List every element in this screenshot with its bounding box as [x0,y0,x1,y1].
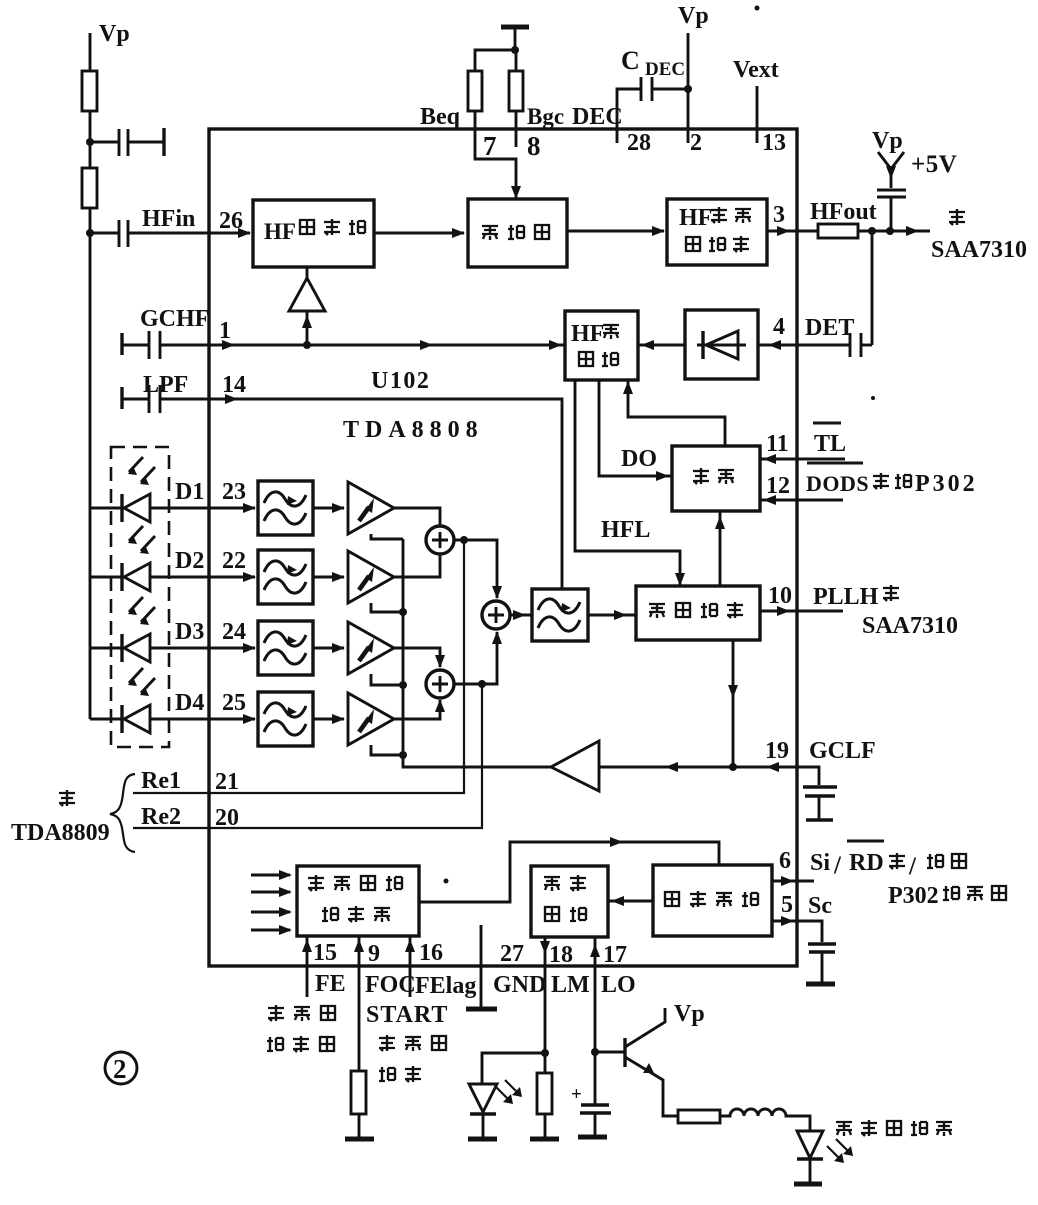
svg-text:6: 6 [779,848,791,874]
svg-text:14: 14 [222,372,246,398]
svg-text:1: 1 [219,318,231,344]
svg-text:24: 24 [222,619,246,645]
capacitor GCLF (outside) [797,767,819,785]
transistor Q1 [595,1008,678,1116]
brace to TDA8809 [110,774,135,852]
svg-text:7: 7 [483,131,497,161]
svg-text:FElag: FElag [415,973,476,999]
wire Re1 (pin 21) [133,540,464,793]
wire focus to start circuit [419,842,719,902]
node LM-LED [541,1049,549,1057]
pin 9 wire FOC [358,936,361,1071]
capacitor Sc [808,944,836,952]
wire gain bus vertical [403,539,551,767]
svg-text:FE: FE [315,971,346,997]
node LO-base [591,1048,599,1056]
wire start to laser supply [608,900,653,903]
pin 27 wire GND [480,925,483,1008]
wire A2 to summer S1 [394,555,440,577]
laser diode [797,1131,853,1183]
svg-text:C: C [621,46,640,75]
block focus normalizer (聚焦标准化电路) [297,866,419,936]
resistor Beq [468,71,482,111]
wire pin 4 DET [758,344,850,347]
svg-text:TDA8808: TDA8808 [343,417,484,443]
svg-text:Sc: Sc [808,893,832,919]
capacitor C2 (HFin coupling) [90,232,119,235]
label 来自P302 [873,473,889,489]
photodiode D3 [90,597,256,662]
svg-text:SAA7310: SAA7310 [931,237,1027,263]
summer S3 [482,601,510,629]
svg-text:5: 5 [781,892,793,918]
wire HFamp to equalizer [374,232,464,235]
resistor FOC [351,1071,366,1114]
svg-text:HFout: HFout [810,199,877,225]
svg-text:DET: DET [805,315,854,341]
filter F3 [258,621,345,675]
ground LED [468,1137,497,1142]
pin 16 wire FElag [409,936,412,997]
svg-text:+: + [571,1084,582,1105]
wire rail long (photodiode common) [89,208,92,719]
svg-text:25: 25 [222,690,246,716]
amplifier A1 [348,482,394,534]
pin 11 wire TL [760,458,845,461]
svg-text:17: 17 [603,942,627,968]
label 到 TDA8809 [59,790,75,806]
svg-text:18: 18 [549,942,573,968]
svg-text:Bgc: Bgc [527,104,564,129]
ground pin 27 [466,1007,497,1012]
node rail-HFin [86,229,94,237]
wire A1 to summer S1 [394,508,440,525]
buffer triangle GCLF [551,741,599,791]
label 增益控制 text [649,604,665,618]
photodiode D4 [90,668,256,733]
node GCLF [729,763,737,771]
svg-text:28: 28 [627,130,651,156]
wire rail mid [89,111,92,168]
svg-text:U102: U102 [371,368,430,394]
label 到聚焦 驱动器 [268,1005,284,1021]
svg-text:22: 22 [222,548,246,574]
wire GCHF pin 1 [120,333,123,355]
svg-text:LM: LM [551,972,590,998]
svg-text:PLLH: PLLH [813,584,879,610]
photodiode D2 [90,526,256,591]
svg-text:19: 19 [765,738,789,764]
resistor Bgc [515,50,518,71]
wire Re2 (pin 20) [133,684,482,828]
wire logic top to HF detector [628,380,725,446]
svg-text:DEC: DEC [572,104,623,130]
pin 18 wire LM [544,937,547,1073]
svg-text:Re2: Re2 [141,804,181,830]
svg-text:21: 21 [215,769,239,795]
svg-text:D4: D4 [175,690,204,716]
svg-text:27: 27 [500,941,524,967]
node bus-A2 [399,608,407,616]
capacitor DET [850,333,861,357]
svg-text:LPF: LPF [143,372,188,398]
pin 7 wire into equalizer [475,111,516,198]
svg-text:2: 2 [113,1054,127,1084]
gain control bus (amp hooks) [371,534,403,539]
svg-text:GCLF: GCLF [809,738,876,764]
svg-text:+5V: +5V [911,151,957,178]
svg-text:11: 11 [766,431,789,457]
resistor LM [537,1073,552,1114]
wire A3 to summer S2 [394,648,440,667]
capacitor C +5V [877,190,906,197]
svg-text:START: START [366,1002,448,1028]
pin 6 wire Si/RD [772,880,814,883]
label 激光二极管 [836,1122,852,1136]
inductor laser [720,1109,810,1131]
svg-text:Vext: Vext [733,57,779,83]
node bus-A3 [399,681,407,689]
svg-text:DODS: DODS [806,471,869,496]
svg-text:HFin: HFin [142,206,195,232]
LED monitor diode [482,1053,545,1084]
amplifier A3 [348,622,394,674]
wire equalizer to HF out amp [567,230,664,233]
svg-text:HF: HF [679,205,712,231]
svg-text:D1: D1 [175,479,204,505]
svg-text:16: 16 [419,940,443,966]
label 激光供给 text [544,877,560,891]
svg-text:13: 13 [762,130,786,156]
ground FOC [345,1137,374,1142]
scan speck [871,396,875,400]
wire gain control to GCLF [732,640,735,767]
block logic (逻辑) [672,446,760,511]
summer S1 [426,526,454,554]
node GCHF-triangle [303,341,311,349]
scan speck [444,879,449,884]
op-amp feedback triangle (below HF amp) [289,278,325,311]
wire S3 to main filter [510,614,532,617]
main filter block [532,589,588,641]
svg-text:HF: HF [264,219,296,244]
svg-text:D2: D2 [175,548,204,574]
wire S1 out [454,540,497,598]
svg-text:P302: P302 [888,883,939,909]
svg-text:9: 9 [368,941,380,967]
wire Vp pin 2 [687,33,690,143]
block HF output amplifier (HF输出放大器) [667,199,767,265]
svg-text:23: 23 [222,479,246,505]
node S1-Re1 [460,536,468,544]
resistor HFout [818,224,858,238]
label 开始电路 text [665,892,679,906]
svg-text:20: 20 [215,805,239,831]
wire HFin into pin 26 [128,232,250,235]
svg-text:RD: RD [849,850,884,876]
svg-text:D3: D3 [175,619,204,645]
wire A4 to summer S2 [394,700,440,719]
pin 15 wire FE [306,936,309,997]
label 到 SAA7310 [949,209,965,225]
resistor R2 (lower left) [82,168,97,208]
svg-text:/: / [908,853,917,880]
ground cap LO [578,1135,607,1140]
wire Vext pin 13 [756,86,759,143]
ground laser diode [794,1182,822,1187]
focus input arrows [251,874,290,877]
svg-text:HFL: HFL [601,517,650,543]
svg-text:SAA7310: SAA7310 [862,613,958,639]
amplifier A4 [348,693,394,745]
pin 8 stub [515,111,518,147]
photodiode D1 [90,457,256,522]
svg-text:4: 4 [773,314,785,340]
scan speck [755,6,760,11]
node Vp-CDEC [684,85,692,93]
svg-text:Vp: Vp [674,1001,705,1027]
svg-text:FOC: FOC [365,972,416,998]
node bus-A4 [399,751,407,759]
svg-text:26: 26 [219,208,243,234]
label 逻辑 text [693,468,709,484]
label 均衡器 text [482,226,498,240]
filter F2 [258,550,345,604]
op block HF amplifier (HF放大器) [253,200,374,267]
wire to Beq [475,50,515,71]
svg-text:TL: TL [814,431,846,457]
filter F1 [258,481,345,535]
photodiode array dashed box [111,447,169,747]
wire DO [599,380,672,476]
label 聚焦标准化电路 text [308,875,324,891]
node HFout-Vp [886,227,894,235]
block start circuit (开始电路) [653,865,772,936]
wire GCLF pin 19 [599,766,797,769]
figure number 2 circled [105,1052,137,1084]
block laser supply (激光供给) [531,866,608,937]
IC U102 boundary [209,129,797,966]
svg-text:GND: GND [493,972,546,998]
node Beq/Bgc top [511,46,519,54]
block gain control (增益控制) [636,586,760,640]
block equalizer (均衡器) [468,199,567,267]
wire HFL [575,380,680,586]
svg-text:GCHF: GCHF [140,306,209,332]
svg-text:Vp: Vp [678,3,709,29]
label 到聚焦 驱动 (START) [379,1035,395,1051]
svg-text:Vp: Vp [99,21,130,47]
svg-text:P302: P302 [915,471,978,497]
wire filter to gain control [588,614,636,617]
ground (top middle) [501,25,529,30]
amplifier A2 [348,551,394,603]
wire Vp rail top [89,33,92,71]
diode block [685,310,758,379]
ground LM [530,1137,559,1142]
svg-text:2: 2 [690,130,702,156]
resistor R1 (upper left) [82,71,97,111]
svg-text:Beq: Beq [420,104,461,130]
pin 17 wire LO [594,937,597,1104]
svg-text:Re1: Re1 [141,768,181,794]
svg-text:12: 12 [766,473,790,499]
node rail-cap1 [86,138,94,146]
node HFout-DET [868,227,876,235]
pin 12 wire DODS [760,499,843,502]
node S2-Re2 [478,680,486,688]
svg-text:8: 8 [527,131,541,161]
capacitor C DEC (pin 28 to Vp) [617,89,641,143]
filter F4 [258,692,345,746]
svg-text:Vp: Vp [872,128,903,154]
svg-text:Si: Si [810,850,830,876]
pin 5 wire Sc [772,921,822,942]
wire LPF pin 14 [120,387,123,409]
svg-text:15: 15 [313,940,337,966]
svg-text:HF: HF [571,321,604,347]
summer S2 [426,670,454,698]
svg-text:TDA8809: TDA8809 [11,820,110,846]
svg-text:10: 10 [768,583,792,609]
pin 10 wire PLLH [760,610,843,613]
block HF detector (HF检波器) [565,311,638,380]
wire HFout to SAA7310 [858,230,930,233]
svg-text:DEC: DEC [645,59,685,80]
wire pin 3 HFout [767,230,818,233]
svg-text:/: / [833,852,842,879]
wire S2 out [454,632,497,684]
svg-text:3: 3 [773,202,785,228]
capacitor C1 (top-left, to open terminal) [90,141,119,144]
svg-text:DO: DO [621,446,657,472]
wire diode to HF detector [638,344,685,347]
svg-text:LO: LO [601,972,636,998]
wire gain control to logic [719,511,722,586]
resistor laser [678,1110,720,1123]
